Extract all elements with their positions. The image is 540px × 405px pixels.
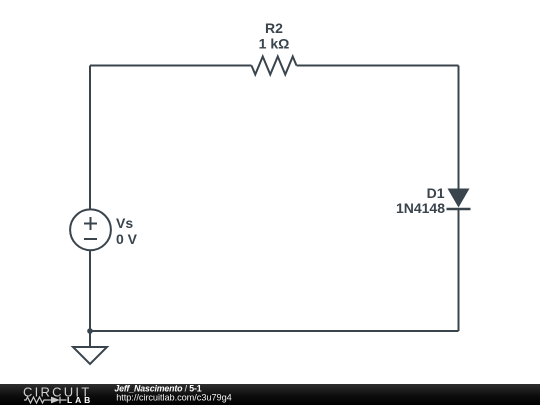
svg-text:http://circuitlab.com/c3u79g4: http://circuitlab.com/c3u79g4 xyxy=(116,392,232,402)
voltage source Vs xyxy=(70,209,111,250)
wire right lower segment xyxy=(458,210,460,331)
resistor R2 xyxy=(252,57,297,75)
footer bar xyxy=(0,384,540,405)
wire bottom segment xyxy=(90,330,459,332)
wire left upper segment xyxy=(89,66,91,210)
ground xyxy=(73,331,107,364)
wire right upper segment xyxy=(458,66,460,190)
wire left lower segment xyxy=(89,250,91,331)
svg-text:R2: R2 xyxy=(265,20,283,36)
svg-text:D1: D1 xyxy=(427,185,445,201)
svg-text:0 V: 0 V xyxy=(116,231,138,247)
svg-text:1 kΩ: 1 kΩ xyxy=(259,36,290,52)
svg-text:1N4148: 1N4148 xyxy=(396,200,445,216)
logo schematic resistor xyxy=(24,397,46,403)
diode D1 xyxy=(447,189,471,210)
logo schematic diode xyxy=(46,397,67,404)
svg-text:Vs: Vs xyxy=(116,215,133,231)
junction node xyxy=(87,328,93,334)
wire top-right segment xyxy=(297,65,459,67)
wire top-left segment xyxy=(90,65,252,67)
svg-text:LAB: LAB xyxy=(67,395,93,405)
